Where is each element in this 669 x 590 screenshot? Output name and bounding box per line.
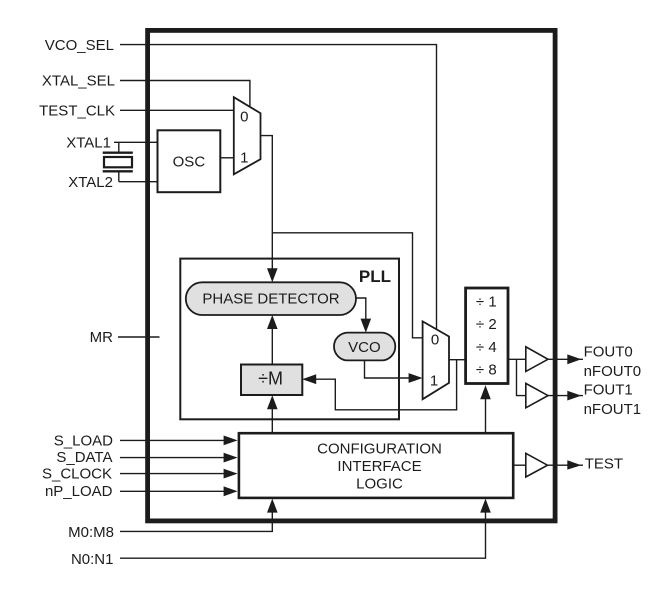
svg-text:N0:N1: N0:N1 [71,551,114,568]
svg-text:1: 1 [240,149,248,166]
svg-text:OSC: OSC [173,153,206,170]
svg-text:S_DATA: S_DATA [56,449,112,466]
svg-text:XTAL1: XTAL1 [66,135,111,152]
svg-text:0: 0 [240,109,248,126]
svg-text:VCO_SEL: VCO_SEL [45,37,114,54]
svg-text:0: 0 [431,331,439,348]
svg-text:S_LOAD: S_LOAD [54,433,113,450]
svg-text:XTAL2: XTAL2 [68,174,113,191]
svg-text:CONFIGURATION: CONFIGURATION [317,440,442,457]
svg-text:TEST: TEST [585,455,623,472]
svg-text:PLL: PLL [359,267,391,286]
svg-text:PHASE DETECTOR: PHASE DETECTOR [202,291,339,308]
svg-text:TEST_CLK: TEST_CLK [39,103,115,120]
svg-text:÷ 2: ÷ 2 [476,316,497,333]
svg-text:FOUT1: FOUT1 [584,381,633,398]
svg-text:S_CLOCK: S_CLOCK [42,465,112,482]
svg-text:VCO: VCO [348,339,381,356]
svg-text:nFOUT1: nFOUT1 [584,401,642,418]
svg-text:nP_LOAD: nP_LOAD [45,483,113,500]
svg-text:M0:M8: M0:M8 [68,524,114,541]
svg-text:÷M: ÷M [258,368,283,388]
svg-text:÷ 8: ÷ 8 [476,362,497,379]
svg-text:INTERFACE: INTERFACE [337,458,421,475]
svg-text:MR: MR [90,329,113,346]
svg-text:XTAL_SEL: XTAL_SEL [42,73,115,90]
svg-text:LOGIC: LOGIC [356,476,403,493]
svg-text:1: 1 [430,372,438,389]
svg-text:FOUT0: FOUT0 [584,343,633,360]
svg-text:÷ 1: ÷ 1 [476,294,497,311]
svg-text:nFOUT0: nFOUT0 [584,363,642,380]
svg-text:÷ 4: ÷ 4 [476,339,497,356]
